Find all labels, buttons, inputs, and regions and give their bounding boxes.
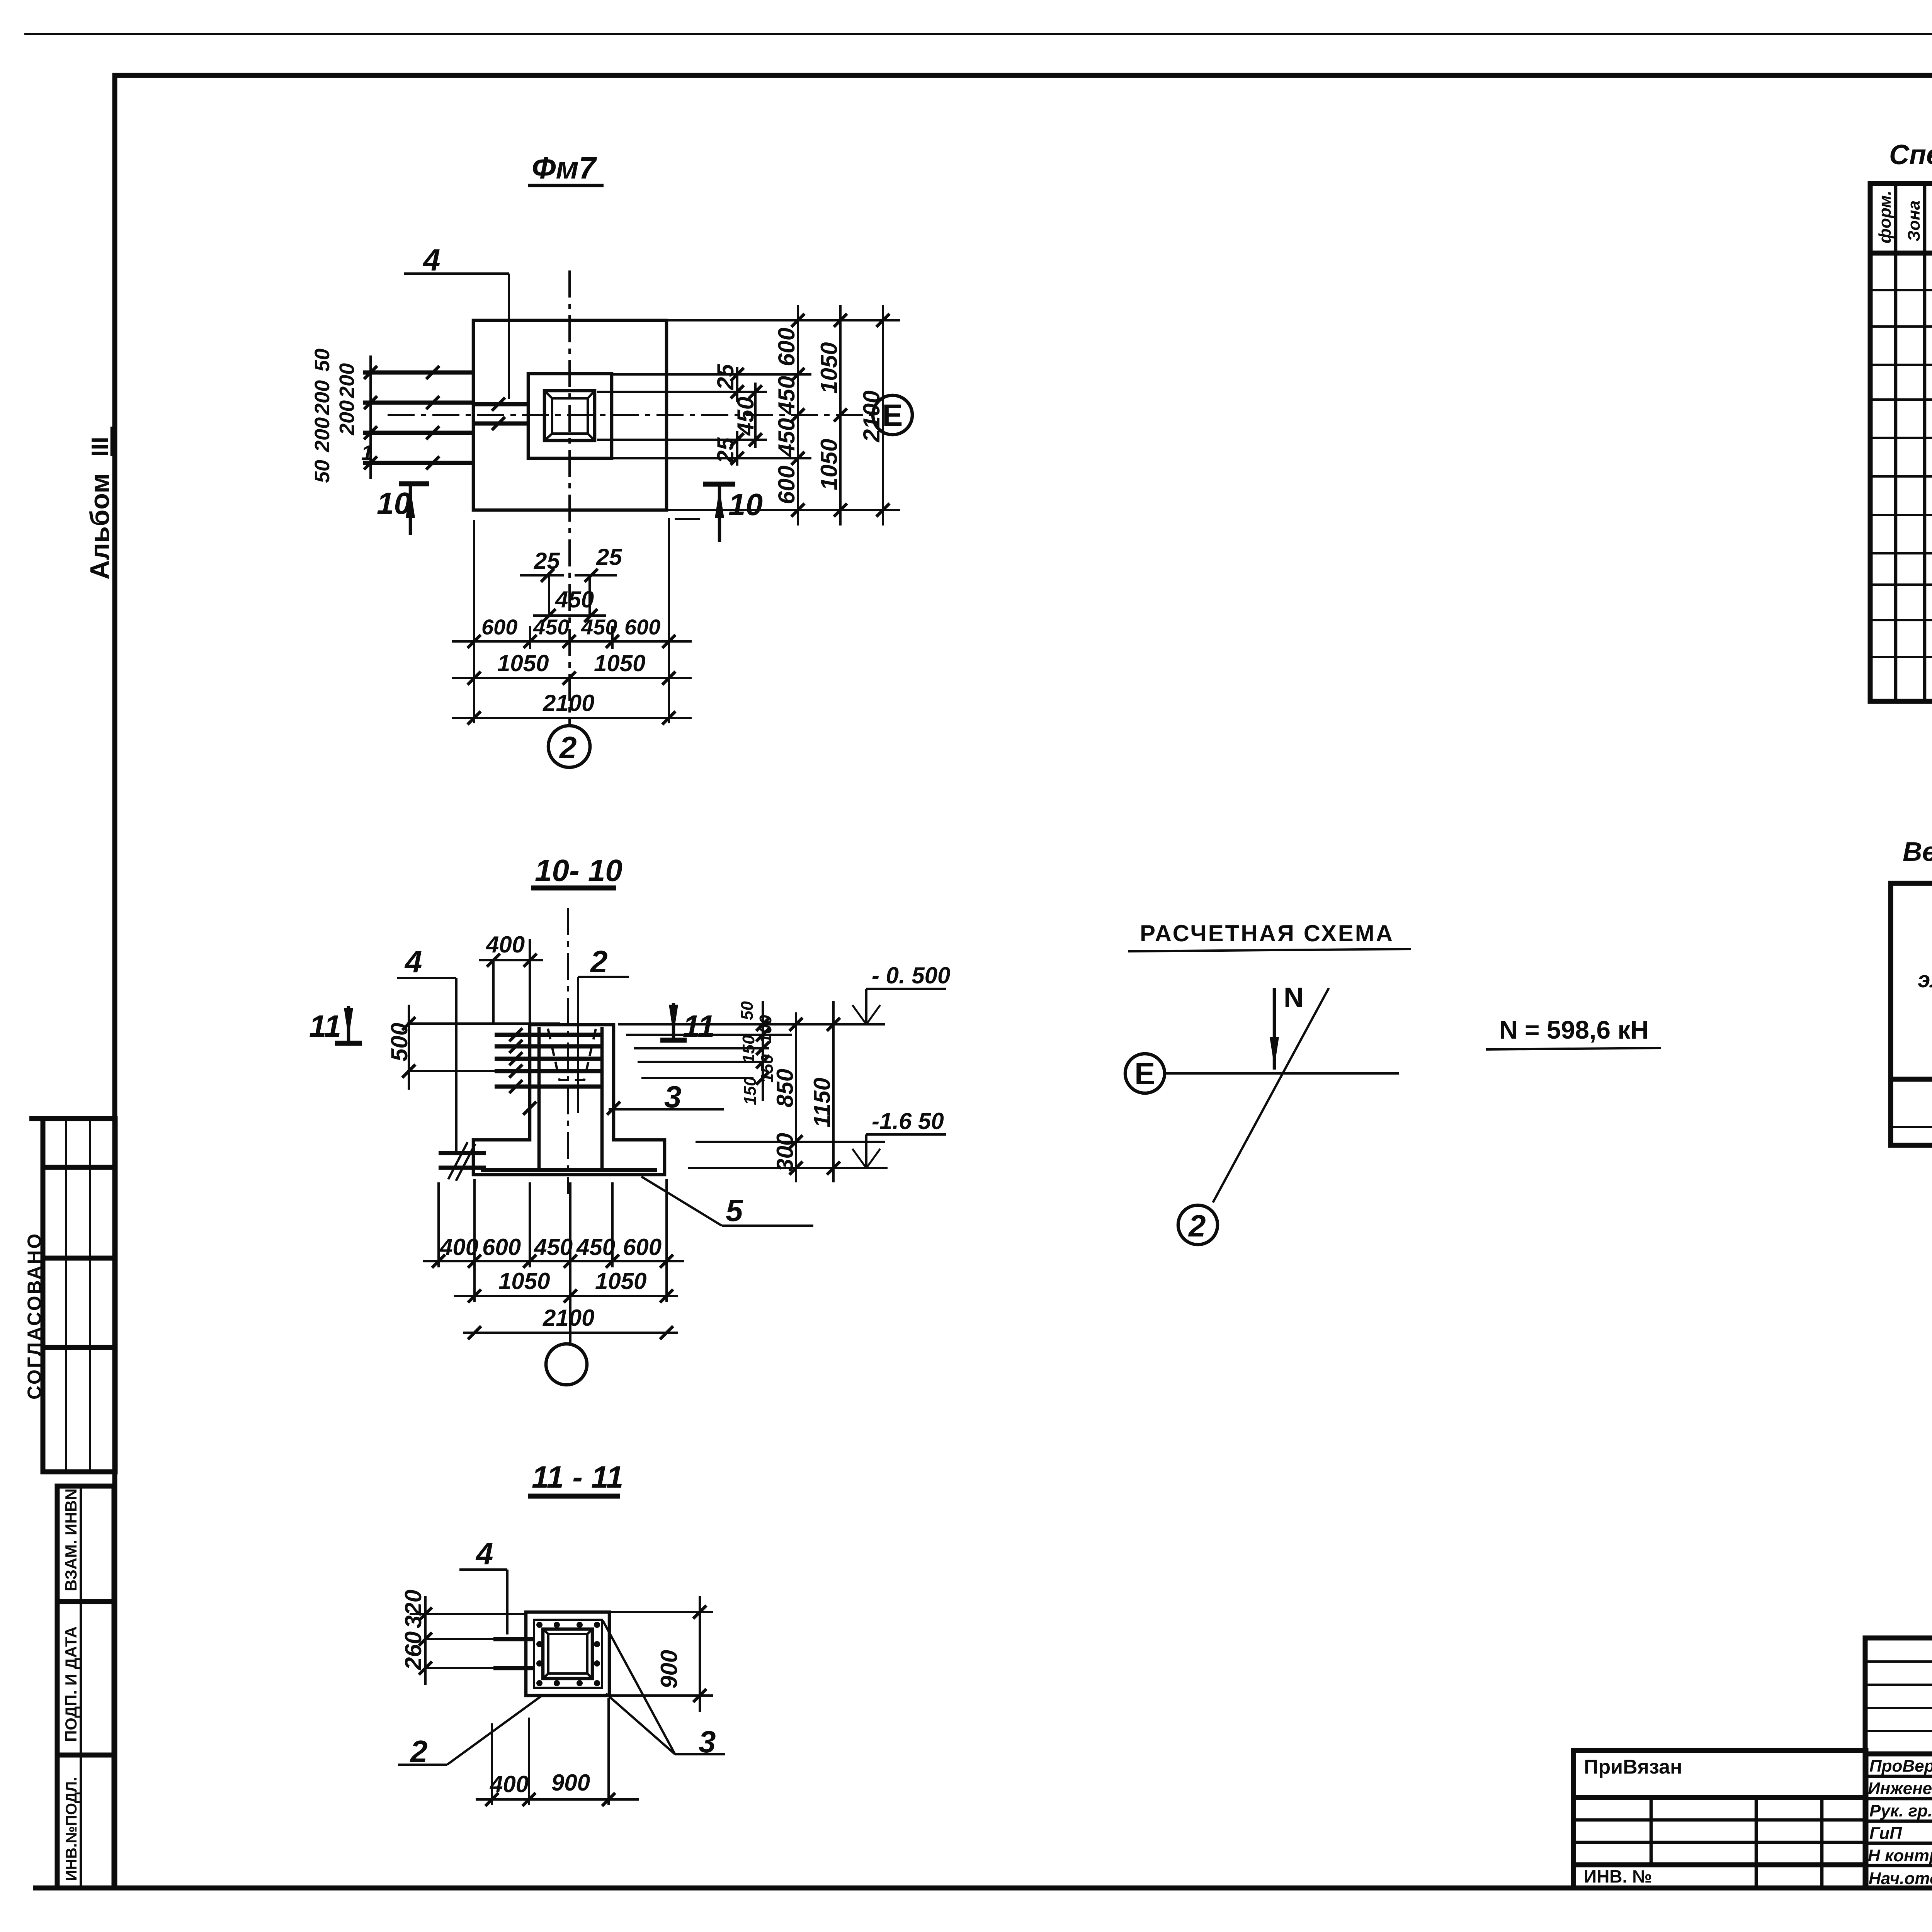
svg-text:Спецификация монолитных фунд: Спецификация монолитных фундаментов Фм7: [1889, 139, 1932, 170]
svg-text:Н контр: Н контр: [1868, 1846, 1932, 1865]
svg-text:ПриВязан: ПриВязан: [1584, 1756, 1682, 1778]
section 11-11 socket outer: [543, 1629, 592, 1679]
plan bottom socket mini dims 25/25: [520, 574, 564, 577]
svg-text:4: 4: [404, 944, 422, 979]
svg-text:2: 2: [1188, 1209, 1206, 1243]
plan socket chamfer corners: [544, 391, 595, 440]
plan vertical centerline: [568, 270, 571, 726]
privyazan row lines: [1573, 1795, 1866, 1800]
svg-text:200: 200: [335, 400, 359, 435]
plan pedestal square: [528, 374, 612, 458]
svg-text:450: 450: [774, 376, 799, 415]
plan bottom socket dim 450: [533, 614, 606, 617]
svg-text:Нач.отд: Нач.отд: [1869, 1869, 1932, 1888]
section 10-10 right bar extension lines: [618, 1023, 885, 1026]
top thin border line: [24, 33, 1932, 35]
svg-text:2: 2: [590, 944, 608, 979]
svg-text:400: 400: [439, 1234, 478, 1260]
section 10-10 dim 500 left: [407, 1022, 560, 1025]
svg-text:2: 2: [410, 1734, 428, 1769]
svg-text:1050: 1050: [594, 650, 645, 676]
svg-text:450: 450: [581, 615, 617, 639]
svg-text:ИНВ. №: ИНВ. №: [1584, 1866, 1652, 1886]
svg-text:400: 400: [486, 932, 525, 957]
svg-text:600: 600: [624, 615, 660, 639]
section 10-10 dim row 2100: [463, 1332, 678, 1334]
section 11-11 stirrup ring: [534, 1620, 602, 1688]
svg-text:260: 260: [400, 1631, 426, 1670]
svg-text:ГиП: ГиП: [1869, 1824, 1902, 1843]
svg-text:450: 450: [555, 587, 594, 612]
section 10-10 elevation -1.650: [865, 1134, 867, 1168]
section 11-11 bottom dims 400/900: [491, 1723, 493, 1805]
svg-text:форм.: форм.: [1876, 190, 1895, 243]
svg-text:600: 600: [623, 1234, 662, 1260]
section 10-10 elevation -0.500: [865, 989, 867, 1024]
section 10-10 mark 11 left: [335, 1041, 362, 1046]
plan axis circle E: [873, 395, 912, 435]
svg-text:N = 598,6 кН: N = 598,6 кН: [1499, 1015, 1649, 1044]
svg-text:400: 400: [490, 1771, 529, 1797]
svg-text:СОГЛАСОВАНО: СОГЛАСОВАНО: [24, 1232, 45, 1400]
svg-text:450: 450: [533, 615, 569, 639]
svg-text:450: 450: [733, 397, 759, 436]
section 10-10 socket dashed formwork: [548, 1029, 596, 1080]
svg-text:1050: 1050: [816, 439, 842, 490]
svg-text:5: 5: [726, 1193, 743, 1228]
title block sig rows text: [1868, 1757, 1932, 1888]
plan right socket mini dims 25/450/25: [736, 367, 738, 402]
svg-text:10- 10: 10- 10: [535, 853, 622, 888]
svg-text:50: 50: [311, 349, 334, 372]
svg-text:N: N: [1284, 982, 1304, 1013]
svg-text:900: 900: [656, 1650, 682, 1689]
plan section mark 10 left: [399, 481, 429, 486]
svg-text:2: 2: [559, 730, 577, 765]
steel table data row lines: [1891, 1077, 1932, 1082]
plan left dimension chain 50/200/200/200/50: [369, 355, 372, 479]
plan right dim chain 600/450/450/600: [797, 305, 799, 526]
section 10-10 dim 1150: [832, 1001, 835, 1182]
svg-text:300: 300: [772, 1133, 798, 1172]
section 10-10 leader 5: [641, 1177, 722, 1226]
scheme axis circle E: [1125, 1054, 1165, 1093]
svg-text:4: 4: [422, 243, 440, 277]
svg-text:150: 150: [741, 1077, 760, 1105]
plan inner bars to pedestal: [474, 402, 528, 406]
svg-text:1150: 1150: [809, 1078, 835, 1128]
left sidebar: inv no podl box: [57, 1755, 114, 1888]
section 10-10 slab anchor bars left: [439, 1151, 486, 1155]
svg-text:500: 500: [386, 1023, 412, 1061]
scheme horizontal axis line: [1165, 1072, 1399, 1075]
svg-text:2100: 2100: [543, 690, 594, 716]
spec table row lines: [1870, 289, 1932, 291]
left sidebar: soglasovano box: [24, 1119, 115, 1472]
svg-text:элемента: элемента: [1918, 967, 1932, 992]
steel table outer border: [1891, 883, 1932, 1145]
svg-text:50: 50: [738, 1001, 757, 1020]
title block outer border: [1865, 1638, 1932, 1888]
svg-text:E: E: [1134, 1056, 1155, 1091]
svg-text:ВЗАМ. ИНВN: ВЗАМ. ИНВN: [62, 1488, 80, 1591]
section 10-10 dim 400 top: [479, 959, 543, 961]
svg-text:-1.6 50: -1.6 50: [872, 1108, 944, 1134]
title block sig row lines: [1865, 1752, 1932, 1757]
svg-text:600: 600: [481, 615, 517, 639]
svg-text:10: 10: [728, 487, 763, 522]
svg-text:600: 600: [774, 328, 799, 366]
plan bar cut slashes: [426, 366, 439, 379]
svg-text:2100: 2100: [543, 1305, 594, 1331]
svg-text:320: 320: [400, 1590, 426, 1628]
svg-text:600: 600: [482, 1234, 521, 1260]
section 11-11 rebar dots: [536, 1622, 600, 1686]
section 10-10 concrete outline: [473, 1025, 665, 1175]
svg-text:Альбом: Альбом: [85, 473, 115, 580]
section 11-11 socket chamfers: [543, 1629, 592, 1679]
svg-text:900: 900: [551, 1770, 590, 1796]
svg-text:25: 25: [713, 364, 738, 390]
section 11-11 outer square: [526, 1612, 609, 1696]
left sidebar: vzam inv box: [57, 1486, 114, 1602]
section 11-11 bars protruding left: [493, 1637, 534, 1641]
svg-text:РАСЧЕТНАЯ СХЕМА: РАСЧЕТНАЯ СХЕМА: [1140, 920, 1394, 946]
plan bottom dim row 2100: [452, 717, 692, 719]
section 10-10 dim 850/300: [795, 1012, 797, 1182]
svg-text:200: 200: [311, 380, 334, 415]
plan bottom dim row 1050/1050: [452, 677, 692, 679]
svg-text:Зона: Зона: [1905, 201, 1923, 241]
svg-text:100: 100: [756, 1015, 775, 1043]
svg-text:1: 1: [361, 441, 373, 464]
plan bottom dim row 600/450/450/600: [452, 640, 692, 643]
svg-text:450: 450: [774, 418, 799, 457]
plan anchor bars protruding left: [363, 371, 474, 375]
svg-text:1050: 1050: [497, 650, 549, 676]
svg-text:4: 4: [475, 1536, 493, 1571]
svg-text:11: 11: [309, 1009, 341, 1043]
svg-text:Рук. гр.: Рук. гр.: [1869, 1801, 1932, 1820]
section 10-10 mark 11 right: [660, 1038, 687, 1043]
svg-text:150: 150: [739, 1035, 758, 1063]
svg-text:ПроВер.: ПроВер.: [1869, 1757, 1932, 1776]
svg-text:1050: 1050: [498, 1268, 550, 1294]
svg-text:Ведомость расхода стали на о: Ведомость расхода стали на один элемент,…: [1903, 837, 1932, 867]
svg-text:Инженер: Инженер: [1868, 1779, 1932, 1798]
svg-text:ИНВ.№ПОДЛ.: ИНВ.№ПОДЛ.: [63, 1777, 80, 1881]
section 11-11 right dim 900: [609, 1611, 713, 1613]
section 11-11 left dims 320/260: [410, 1613, 526, 1615]
plan right dim 2100: [882, 305, 884, 526]
svg-text:E: E: [882, 398, 903, 432]
privyazan outer border: [1573, 1750, 1866, 1888]
section 10-10 dim row 400/600/450/450/600: [423, 1260, 684, 1262]
svg-text:200: 200: [311, 417, 334, 452]
section 10-10 pedestal rebar cage verticals: [537, 1027, 541, 1171]
svg-text:25: 25: [534, 548, 560, 574]
section 10-10 stirrups and anchor bars: [495, 1033, 603, 1037]
svg-text:- 0. 500: - 0. 500: [872, 963, 950, 988]
plan socket outer square: [544, 391, 595, 440]
album III vertical label: [85, 427, 115, 580]
scheme axis circle 2: [1178, 1205, 1218, 1245]
svg-text:450: 450: [576, 1234, 615, 1260]
plan right extension lines: [667, 319, 900, 321]
spec table outer border: [1870, 184, 1932, 701]
svg-text:III: III: [87, 437, 114, 457]
plan axis circle 2: [548, 726, 590, 767]
title block sig upper empty rows: [1865, 1660, 1932, 1663]
spec table header bottom line: [1870, 251, 1932, 256]
svg-text:1050: 1050: [816, 342, 842, 394]
section 10-10 dim row 1050/1050: [454, 1295, 678, 1297]
left sidebar: podpis i data box: [57, 1602, 114, 1755]
svg-text:10: 10: [377, 486, 411, 520]
section 10-10 axis circle empty: [546, 1344, 587, 1385]
section 11-11 socket inner: [548, 1634, 587, 1673]
svg-text:Фм7: Фм7: [532, 151, 597, 185]
svg-text:25: 25: [713, 437, 738, 464]
svg-text:25: 25: [596, 544, 622, 570]
scheme diagonal axis line: [1213, 988, 1329, 1202]
svg-text:11: 11: [683, 1009, 715, 1043]
svg-text:450: 450: [534, 1234, 573, 1260]
svg-text:50: 50: [311, 460, 334, 483]
plan footing outer square: [473, 320, 667, 510]
plan centerline dash right of mark: [675, 518, 700, 520]
privyazan column lines: [1650, 1798, 1653, 1865]
svg-text:ПОДП. И ДАТА: ПОДП. И ДАТА: [62, 1626, 80, 1742]
bottom extension of thick frame line to sheet left edge: [33, 1886, 115, 1891]
plan bottom dim extension lines: [473, 520, 475, 723]
section 10-10 slab bottom mesh: [481, 1168, 657, 1172]
plan section mark 10 right: [703, 482, 735, 487]
svg-text:600: 600: [774, 466, 799, 504]
svg-text:11 - 11: 11 - 11: [532, 1460, 623, 1494]
svg-text:850: 850: [772, 1069, 798, 1107]
plan horizontal centerline: [388, 414, 872, 416]
spec table column lines: [1894, 184, 1898, 701]
section 10-10 bottom dim extensions: [437, 1182, 440, 1267]
plan right dim chain 1050/1050: [839, 305, 842, 526]
section 10-10 centerline: [567, 908, 569, 1194]
section 10-10 right small chain 50/100/150: [762, 1001, 764, 1101]
plan socket inner square: [552, 398, 588, 434]
svg-text:200: 200: [335, 363, 359, 398]
svg-text:1050: 1050: [595, 1268, 646, 1294]
